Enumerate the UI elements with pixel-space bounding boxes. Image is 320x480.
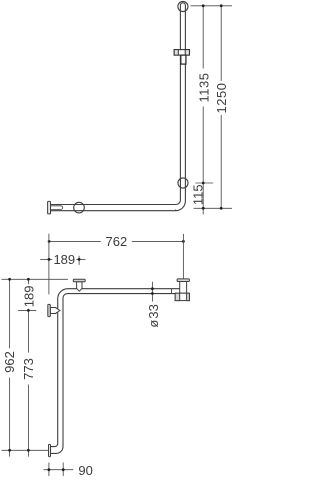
svg-text:189: 189 (53, 252, 75, 267)
svg-text:773: 773 (21, 358, 36, 380)
svg-text:1250: 1250 (214, 83, 229, 114)
svg-text:762: 762 (106, 234, 128, 249)
svg-text:962: 962 (2, 351, 17, 373)
svg-text:ø 33: ø 33 (146, 304, 161, 328)
svg-text:115: 115 (190, 184, 205, 205)
svg-text:189: 189 (21, 286, 36, 308)
svg-text:1135: 1135 (197, 73, 212, 103)
svg-text:90: 90 (78, 463, 92, 478)
